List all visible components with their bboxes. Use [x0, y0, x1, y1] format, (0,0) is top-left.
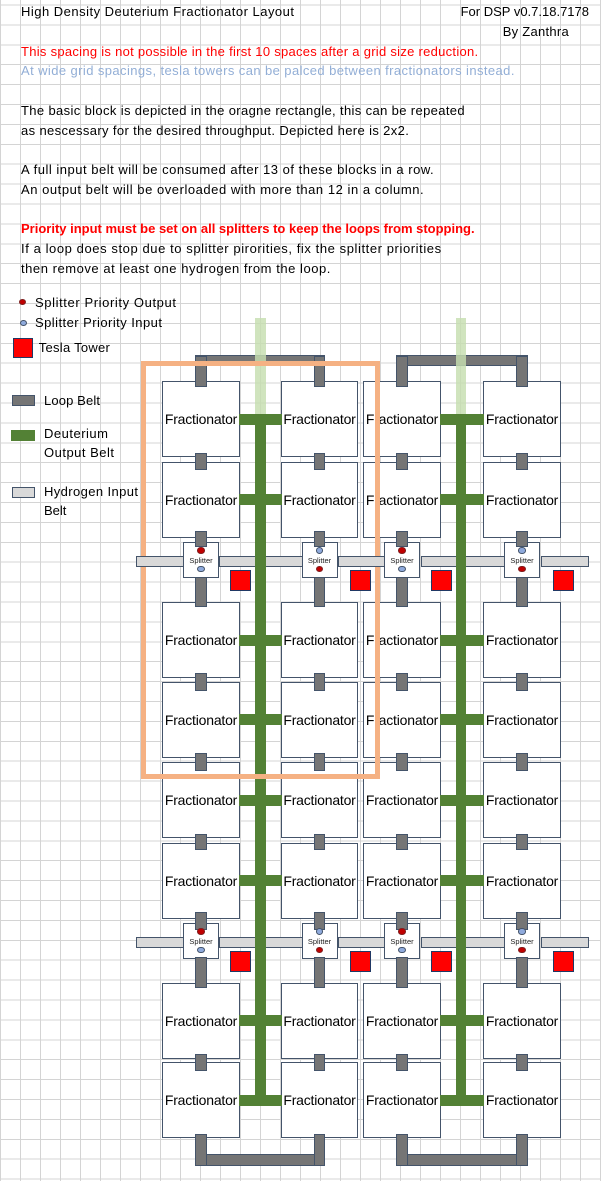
loop belt bottom bar pair2 — [396, 1154, 528, 1166]
deuterium belt tie pair1 row6 — [239, 875, 282, 886]
loop belt connector col2 seg7 — [314, 912, 326, 931]
orange basic block rectangle — [141, 361, 380, 780]
loop belt connector col1 seg8 — [195, 957, 207, 988]
fractionator box r1c3 — [363, 381, 441, 457]
loop belt connector col2 seg2 — [314, 531, 326, 547]
loop belt connector col3 seg5 — [396, 753, 408, 771]
loop belt connector col3 seg1 — [396, 453, 408, 470]
loop belt connector col3 seg3 — [396, 577, 408, 607]
tesla tower row1 col2 — [350, 570, 371, 591]
fractionator label r5c1 — [162, 791, 240, 809]
deuterium belt tie pair1 row5 — [239, 795, 282, 806]
fractionator box r6c3 — [363, 843, 441, 919]
legend tesla tower swatch — [13, 338, 33, 358]
fractionator box r6c1 — [162, 843, 240, 919]
hydrogen input belt row1 seg2 — [219, 556, 303, 567]
tesla tower row2 col1 — [230, 951, 251, 972]
fractionator box r5c2 — [281, 762, 359, 838]
fractionator box r3c3 — [363, 602, 441, 678]
hydrogen input belt row1 seg5 — [541, 556, 590, 567]
splitter box row2 col1 — [183, 923, 219, 959]
fractionator label r5c3 — [363, 791, 441, 809]
loop belt connector col4 seg8 — [516, 957, 528, 988]
fractionator box r3c4 — [483, 602, 561, 678]
splitter box row1 col1 — [183, 542, 219, 578]
loop belt bottom leg col1 — [195, 1134, 207, 1166]
splitter priority dot bottom row2 col4 — [518, 947, 525, 954]
legend red dot — [19, 299, 26, 306]
tesla tower row2 col4 — [553, 951, 574, 972]
splitter priority dot top row1 col3 — [398, 547, 405, 554]
fractionator label r2c1 — [162, 491, 240, 509]
splitter priority dot top row1 col4 — [518, 547, 525, 554]
splitter priority dot top row2 col3 — [398, 928, 405, 935]
fractionator label r7c3 — [363, 1012, 441, 1030]
fractionator box r3c1 — [162, 602, 240, 678]
loop belt connector col1 seg3 — [195, 577, 207, 607]
deuterium belt tie pair2 row7 — [440, 1015, 485, 1026]
legend label loop belt — [44, 392, 100, 410]
fractionator label r6c4 — [483, 872, 561, 890]
deuterium belt tie pair2 row6 — [440, 875, 485, 886]
fractionator box r6c2 — [281, 843, 359, 919]
loop belt connector col3 seg7 — [396, 912, 408, 931]
warning red text — [21, 43, 478, 61]
fractionator label r2c3 — [363, 491, 441, 509]
deuterium belt vertical pair2 — [456, 414, 467, 1106]
loop belt connector col4 seg9 — [516, 1054, 528, 1071]
fractionator label r4c3 — [363, 711, 441, 729]
splitter label row2 col4 — [504, 936, 540, 947]
loop belt connector col4 seg5 — [516, 753, 528, 771]
splitter priority dot bottom row1 col2 — [316, 566, 323, 573]
loop belt connector col4 seg3 — [516, 577, 528, 607]
splitter priority dot bottom row2 col2 — [316, 947, 323, 954]
loop belt connector col1 seg2 — [195, 531, 207, 547]
splitter label row1 col4 — [504, 555, 540, 566]
loop belt connector col1 seg9 — [195, 1054, 207, 1071]
body text 2 — [21, 122, 409, 140]
splitter label row2 col1 — [183, 936, 219, 947]
body text 6 — [21, 260, 331, 278]
loop belt connector col4 seg4 — [516, 673, 528, 691]
splitter box row1 col3 — [384, 542, 420, 578]
hydrogen input belt row2 seg4 — [421, 937, 505, 948]
deuterium belt vertical pair1 — [255, 414, 266, 1106]
deuterium belt tie pair1 row7 — [239, 1015, 282, 1026]
legend hydrogen belt swatch — [12, 487, 35, 498]
fractionator label r1c4 — [483, 410, 561, 428]
hydrogen input belt row2 seg5 — [541, 937, 590, 948]
fractionator box r2c2 — [281, 462, 359, 538]
loop belt connector col3 seg2 — [396, 531, 408, 547]
fractionator box r4c2 — [281, 682, 359, 758]
deuterium belt tie pair1 row8 — [239, 1095, 282, 1106]
legend deuterium belt swatch — [11, 430, 35, 441]
loop belt connector col4 seg1 — [516, 453, 528, 470]
loop belt top leg col1 — [195, 356, 207, 387]
fractionator label r3c3 — [363, 631, 441, 649]
deuterium belt tie pair2 row1 — [440, 414, 485, 425]
fractionator box r1c2 — [281, 381, 359, 457]
fractionator label r7c2 — [281, 1012, 359, 1030]
loop belt connector col4 seg7 — [516, 912, 528, 931]
fractionator box r8c3 — [363, 1062, 441, 1138]
fractionator label r1c3 — [363, 410, 441, 428]
hydrogen input belt row2 seg1 — [136, 937, 184, 948]
fractionator box r1c4 — [483, 381, 561, 457]
deuterium belt crossing pair1 row2 — [255, 937, 266, 949]
fractionator box r1c1 — [162, 381, 240, 457]
hydrogen input belt row1 seg1 — [136, 556, 184, 567]
fractionator label r5c4 — [483, 791, 561, 809]
splitter priority dot bottom row2 col3 — [398, 947, 405, 954]
loop belt connector col3 seg8 — [396, 957, 408, 988]
hydrogen input belt row2 seg3 — [338, 937, 385, 948]
fractionator label r6c2 — [281, 872, 359, 890]
splitter priority dot bottom row1 col4 — [518, 566, 525, 573]
loop belt connector col1 seg1 — [195, 453, 207, 470]
fractionator label r8c3 — [363, 1091, 441, 1109]
splitter label row2 col3 — [384, 936, 420, 947]
loop belt connector col1 seg4 — [195, 673, 207, 691]
splitter priority dot top row2 col1 — [197, 928, 204, 935]
loop belt connector col1 seg5 — [195, 753, 207, 771]
deuterium belt crossing pair2 row2 — [456, 937, 467, 949]
legend loop belt swatch — [12, 395, 35, 406]
fractionator box r7c1 — [162, 983, 240, 1059]
body text 1 — [21, 102, 465, 120]
fractionator label r3c4 — [483, 631, 561, 649]
hydrogen feed pale belt pair2 — [456, 318, 467, 414]
fractionator box r2c4 — [483, 462, 561, 538]
fractionator box r3c2 — [281, 602, 359, 678]
fractionator label r5c2 — [281, 791, 359, 809]
loop belt top leg col2 — [314, 356, 326, 387]
hydrogen input belt row1 seg4 — [421, 556, 505, 567]
tesla tower row1 col4 — [553, 570, 574, 591]
fractionator label r1c2 — [281, 410, 359, 428]
fractionator label r8c4 — [483, 1091, 561, 1109]
fractionator box r2c1 — [162, 462, 240, 538]
fractionator box r4c3 — [363, 682, 441, 758]
loop belt bottom leg col3 — [396, 1134, 408, 1166]
fractionator box r4c4 — [483, 682, 561, 758]
fractionator label r1c1 — [162, 410, 240, 428]
legend label deuterium line1 — [44, 425, 108, 443]
splitter label row1 col3 — [384, 555, 420, 566]
body text 4 — [21, 181, 424, 199]
fractionator label r4c4 — [483, 711, 561, 729]
deuterium belt tie pair1 row4 — [239, 714, 282, 725]
fractionator box r5c1 — [162, 762, 240, 838]
loop belt connector col3 seg4 — [396, 673, 408, 691]
deuterium belt tie pair2 row4 — [440, 714, 485, 725]
loop belt connector col2 seg4 — [314, 673, 326, 691]
splitter box row2 col4 — [504, 923, 540, 959]
hydrogen input belt row1 seg3 — [338, 556, 385, 567]
fractionator box r5c4 — [483, 762, 561, 838]
title text — [21, 3, 294, 21]
fractionator label r3c2 — [281, 631, 359, 649]
fractionator label r3c1 — [162, 631, 240, 649]
deuterium belt tie pair1 row1 — [239, 414, 282, 425]
body text 5 — [21, 240, 442, 258]
deuterium belt tie pair2 row3 — [440, 635, 485, 646]
legend label splitter priority input — [35, 314, 162, 332]
legend label tesla tower — [39, 339, 110, 357]
fractionator label r2c2 — [281, 491, 359, 509]
fractionator label r2c4 — [483, 491, 561, 509]
splitter box row1 col2 — [302, 542, 338, 578]
loop belt connector col4 seg2 — [516, 531, 528, 547]
deuterium belt crossing pair2 row1 — [456, 556, 467, 568]
fractionator box r4c1 — [162, 682, 240, 758]
body text 3 — [21, 161, 434, 179]
tesla tower row1 col3 — [431, 570, 452, 591]
loop belt top bar pair2 — [396, 355, 528, 366]
fractionator label r6c3 — [363, 872, 441, 890]
splitter label row1 col1 — [183, 555, 219, 566]
hydrogen feed pale belt pair1 — [255, 318, 266, 414]
loop belt top leg col4 — [516, 356, 528, 387]
splitter box row1 col4 — [504, 542, 540, 578]
splitter priority dot bottom row1 col3 — [398, 566, 405, 573]
hydrogen input belt row2 seg2 — [219, 937, 303, 948]
fractionator label r7c1 — [162, 1012, 240, 1030]
legend label hydrogen line2 — [44, 502, 66, 520]
tesla tower row1 col1 — [230, 570, 251, 591]
splitter priority dot bottom row2 col1 — [197, 947, 204, 954]
author text — [503, 23, 569, 41]
deuterium belt tie pair2 row5 — [440, 795, 485, 806]
fractionator label r7c4 — [483, 1012, 561, 1030]
deuterium belt tie pair1 row2 — [239, 494, 282, 505]
legend label hydrogen line1 — [44, 483, 138, 501]
fractionator label r8c2 — [281, 1091, 359, 1109]
fractionator box r7c4 — [483, 983, 561, 1059]
splitter priority dot top row1 col2 — [316, 547, 323, 554]
loop belt top leg col3 — [396, 356, 408, 387]
deuterium belt tie pair2 row8 — [440, 1095, 485, 1106]
priority red bold text — [21, 220, 475, 238]
loop belt connector col4 seg6 — [516, 834, 528, 850]
loop belt bottom bar pair1 — [195, 1154, 325, 1166]
loop belt top bar pair1 — [195, 355, 325, 366]
loop belt connector col2 seg9 — [314, 1054, 326, 1071]
splitter label row2 col2 — [302, 936, 338, 947]
fractionator box r5c3 — [363, 762, 441, 838]
fractionator box r7c3 — [363, 983, 441, 1059]
legend label splitter priority output — [35, 294, 177, 312]
tesla tower row2 col3 — [431, 951, 452, 972]
legend blue dot — [20, 320, 27, 327]
legend label deuterium line2 — [44, 444, 115, 462]
loop belt bottom leg col2 — [314, 1134, 326, 1166]
splitter box row2 col3 — [384, 923, 420, 959]
loop belt connector col3 seg6 — [396, 834, 408, 850]
loop belt connector col2 seg5 — [314, 753, 326, 771]
splitter priority dot top row1 col1 — [197, 547, 204, 554]
deuterium belt tie pair1 row3 — [239, 635, 282, 646]
splitter priority dot top row2 col4 — [518, 928, 525, 935]
loop belt connector col2 seg1 — [314, 453, 326, 470]
splitter box row2 col2 — [302, 923, 338, 959]
deuterium belt crossing pair1 row1 — [255, 556, 266, 568]
note blue text — [21, 62, 515, 80]
splitter label row1 col2 — [302, 555, 338, 566]
fractionator box r8c4 — [483, 1062, 561, 1138]
fractionator label r8c1 — [162, 1091, 240, 1109]
fractionator box r7c2 — [281, 983, 359, 1059]
version text — [461, 3, 589, 21]
loop belt connector col1 seg7 — [195, 912, 207, 931]
loop belt connector col3 seg9 — [396, 1054, 408, 1071]
fractionator label r4c1 — [162, 711, 240, 729]
fractionator box r8c1 — [162, 1062, 240, 1138]
loop belt connector col1 seg6 — [195, 834, 207, 850]
fractionator label r6c1 — [162, 872, 240, 890]
tesla tower row2 col2 — [350, 951, 371, 972]
loop belt connector col2 seg8 — [314, 957, 326, 988]
loop belt connector col2 seg3 — [314, 577, 326, 607]
deuterium belt tie pair2 row2 — [440, 494, 485, 505]
splitter priority dot top row2 col2 — [316, 928, 323, 935]
splitter priority dot bottom row1 col1 — [197, 566, 204, 573]
fractionator box r6c4 — [483, 843, 561, 919]
fractionator label r4c2 — [281, 711, 359, 729]
loop belt connector col2 seg6 — [314, 834, 326, 850]
fractionator box r8c2 — [281, 1062, 359, 1138]
fractionator box r2c3 — [363, 462, 441, 538]
loop belt bottom leg col4 — [516, 1134, 528, 1166]
